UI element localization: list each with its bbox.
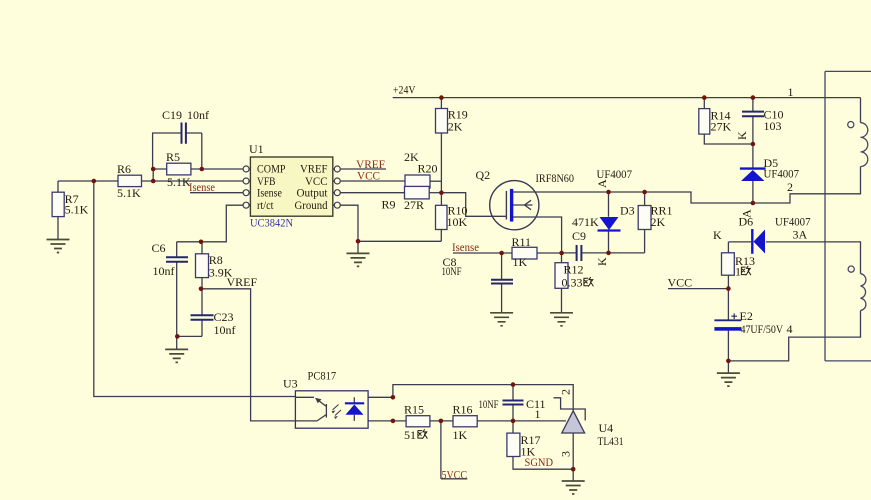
svg-text:K: K <box>735 131 749 140</box>
wire C19 loop <box>153 133 202 169</box>
IC U1 UC3842N <box>243 142 340 230</box>
wire RR1 leads <box>644 192 646 253</box>
svg-text:R11: R11 <box>512 235 532 249</box>
svg-text:10K: 10K <box>447 215 468 229</box>
svg-text:VCC: VCC <box>668 276 693 290</box>
wire VCC port <box>668 288 728 290</box>
svg-text:2: 2 <box>559 389 573 395</box>
svg-text:5.1K: 5.1K <box>65 203 89 217</box>
wire D3 leads <box>608 192 610 253</box>
shunt regulator U4 TL431 <box>554 389 624 457</box>
wire R13 leads <box>727 242 729 289</box>
resistor R14 <box>699 109 732 135</box>
svg-text:+24V: +24V <box>393 83 416 97</box>
svg-text:R20: R20 <box>418 162 438 176</box>
svg-text:TL431: TL431 <box>598 434 624 448</box>
resistor R15 <box>404 403 430 443</box>
svg-text:K: K <box>595 257 609 266</box>
wire R9 right link <box>429 192 441 194</box>
wire U3 collector out <box>368 385 573 411</box>
optocoupler U3 PC817 <box>283 369 368 429</box>
svg-text:47UF/50V: 47UF/50V <box>741 322 784 336</box>
svg-text:27K: 27K <box>711 120 732 134</box>
wire pin4 path <box>728 311 860 361</box>
svg-text:U3: U3 <box>283 377 298 391</box>
svg-text:10nf: 10nf <box>214 323 236 337</box>
resistor R7 <box>52 192 89 217</box>
svg-text:2K: 2K <box>651 215 666 229</box>
wire Q2 bulk arrow segment <box>513 204 533 206</box>
wire rt/ct to RC node <box>177 205 244 242</box>
svg-text:rt/ct: rt/ct <box>257 198 274 212</box>
svg-text:0.33: 0.33 <box>562 276 583 290</box>
capacitor C23 <box>191 310 236 337</box>
svg-text:2K: 2K <box>448 120 463 134</box>
resistor R13 <box>722 253 756 279</box>
svg-text:5.1K: 5.1K <box>167 175 191 189</box>
svg-text:1K: 1K <box>453 428 468 442</box>
ground (R12) <box>550 313 573 326</box>
svg-text:UF4007: UF4007 <box>764 167 800 181</box>
resistor R10 <box>436 204 468 230</box>
svg-text:10nf: 10nf <box>187 108 209 122</box>
svg-text:R16: R16 <box>453 403 473 417</box>
svg-text:U4: U4 <box>599 421 614 435</box>
wire R19 top lead <box>440 98 442 109</box>
wire pin1 to primary top <box>860 98 862 123</box>
svg-text:1: 1 <box>788 85 794 99</box>
svg-text:IRF8N60: IRF8N60 <box>536 171 575 185</box>
svg-text:3: 3 <box>559 451 573 457</box>
svg-text:Q2: Q2 <box>476 168 491 182</box>
svg-text:1: 1 <box>535 407 541 421</box>
wire C9 row <box>562 252 645 254</box>
svg-text:1: 1 <box>735 265 741 279</box>
wire Isense stub at U1 <box>190 192 243 194</box>
wire Ground pin to ground node <box>340 205 442 253</box>
wire feedback left drop to U3 <box>94 181 296 397</box>
svg-text:D3: D3 <box>620 204 635 218</box>
net label VREF (U1 right) <box>356 157 385 171</box>
svg-text:K: K <box>713 228 722 242</box>
wire R15-R16 link <box>430 420 453 422</box>
wire VREF net to U3 emitter <box>201 289 295 421</box>
wire VFB row <box>58 180 243 182</box>
svg-text:5.1K: 5.1K <box>117 186 141 200</box>
resistor R16 <box>453 403 478 443</box>
wire U3 emitter out to R15 <box>368 420 406 422</box>
diode D5 UF4007 <box>740 156 799 181</box>
capacitor E2 electrolytic <box>714 309 783 336</box>
wire COMP row <box>153 168 243 170</box>
ground (U1) <box>347 253 370 266</box>
svg-text:SGND: SGND <box>525 455 554 469</box>
wire D5 leads <box>752 144 754 203</box>
wire Q2 source drop <box>513 217 562 253</box>
resistor R6 <box>117 162 142 200</box>
svg-text:UF4007: UF4007 <box>775 215 811 229</box>
capacitor C11 <box>479 397 546 411</box>
svg-text:Isense: Isense <box>452 240 479 254</box>
wire D6 row to aux winding <box>728 242 860 274</box>
wire E2 ground lead <box>727 361 729 373</box>
wire COMP-VFB link <box>152 169 154 181</box>
wire C8 leads <box>501 253 503 312</box>
svg-text:C19: C19 <box>162 108 182 122</box>
net label VCC (U1 right) <box>357 169 380 183</box>
capacitor C19 <box>162 108 209 144</box>
svg-text:E2: E2 <box>740 309 753 323</box>
svg-text:UC3842N: UC3842N <box>250 216 293 230</box>
wire +24V rail <box>393 97 861 99</box>
svg-text:R12: R12 <box>564 263 584 277</box>
wire R14 leads <box>704 98 753 144</box>
wire R16 right to U4 ref <box>477 420 566 422</box>
svg-text:51: 51 <box>404 428 416 442</box>
diode D6 UF4007 3A <box>713 209 811 254</box>
svg-text:10NF: 10NF <box>442 264 462 278</box>
diode D3 UF4007 <box>595 167 635 266</box>
svg-text:R5: R5 <box>166 150 180 164</box>
transformer aux winding <box>848 266 866 311</box>
svg-text:2: 2 <box>787 180 793 194</box>
svg-text:27R: 27R <box>404 198 424 212</box>
resistor R19 <box>436 108 468 134</box>
wire R8 leads <box>201 242 203 289</box>
wire E2 leads <box>727 289 729 361</box>
transformer primary winding <box>848 122 868 167</box>
svg-text:103: 103 <box>764 119 782 133</box>
wire drain rail <box>512 167 861 204</box>
ground (R7) <box>47 240 70 253</box>
svg-text:3A: 3A <box>793 228 808 242</box>
wire C10 leads <box>752 98 754 144</box>
wire R7 leads <box>57 181 59 239</box>
ground (C8) <box>490 313 513 326</box>
wire R17 leads <box>513 421 573 469</box>
wire R12 leads <box>561 253 563 313</box>
svg-text:Ground: Ground <box>295 198 328 212</box>
capacitor C9 <box>572 215 599 261</box>
resistor RR1 <box>638 204 672 230</box>
wire VCC pin to R20 <box>340 180 405 182</box>
svg-text:C9: C9 <box>572 229 586 243</box>
svg-text:Isense: Isense <box>189 180 215 194</box>
svg-text:UF4007: UF4007 <box>597 167 633 181</box>
svg-text:4: 4 <box>787 322 793 336</box>
svg-text:C23: C23 <box>214 310 234 324</box>
resistor R12 <box>555 263 593 290</box>
svg-text:10NF: 10NF <box>479 397 499 411</box>
wire R19 bottom to R20/node <box>440 133 442 205</box>
wire R10 bottom lead <box>440 230 442 242</box>
svg-text:5VCC: 5VCC <box>442 468 468 482</box>
ground (E2) <box>717 373 740 386</box>
wire Output pin to R9 <box>340 192 405 194</box>
transistor Q2 IRF8N60 <box>476 168 575 230</box>
ground (C6/C23) <box>165 349 188 362</box>
svg-text:C6: C6 <box>152 241 166 255</box>
ground (U4) <box>562 481 585 494</box>
resistor R17 <box>507 433 541 459</box>
svg-text:U1: U1 <box>249 142 264 156</box>
svg-text:A: A <box>740 209 754 218</box>
svg-text:R15: R15 <box>404 403 424 417</box>
svg-text:A: A <box>595 179 609 188</box>
resistor R8 <box>196 253 233 280</box>
svg-text:VREF: VREF <box>227 275 258 289</box>
wire U4 anode lead <box>572 433 574 481</box>
capacitor C8 <box>442 255 514 284</box>
wire 5VCC stub <box>441 421 467 479</box>
wire C11 leads <box>512 385 514 421</box>
svg-text:VCC: VCC <box>357 169 380 183</box>
wire R20 right link <box>430 180 441 182</box>
resistor R5 <box>166 150 191 189</box>
wire C6 leads <box>176 242 178 337</box>
svg-text:471K: 471K <box>572 215 599 229</box>
transformer T1 box <box>825 71 871 361</box>
capacitor C6 <box>152 241 189 278</box>
wire C23 leads <box>177 289 202 337</box>
svg-text:R9: R9 <box>382 198 396 212</box>
wire Isense sense row <box>453 252 562 254</box>
svg-text:1K: 1K <box>513 255 528 269</box>
resistor R11 <box>512 235 538 269</box>
wire gate link <box>441 193 506 217</box>
wire C6 ground lead <box>176 336 178 349</box>
resistor R20 <box>404 150 438 188</box>
wire VREF pin stub <box>340 168 386 170</box>
svg-text:10nf: 10nf <box>153 264 175 278</box>
capacitor C10 <box>742 108 784 134</box>
resistor R9 <box>382 186 430 212</box>
svg-text:PC817: PC817 <box>308 369 337 383</box>
svg-text:R6: R6 <box>117 162 131 176</box>
